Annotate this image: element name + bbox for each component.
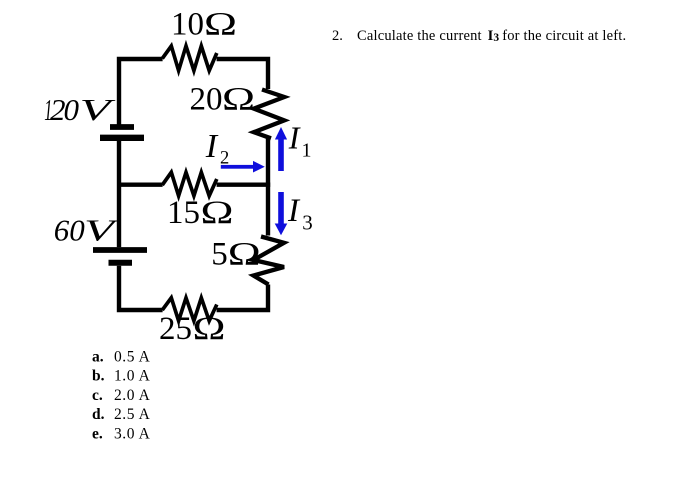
svg-text:60: 60 bbox=[54, 213, 85, 248]
svg-text:I: I bbox=[288, 119, 301, 155]
svg-text:25: 25 bbox=[159, 311, 192, 347]
svg-text:2.: 2. bbox=[332, 28, 343, 44]
svg-text:1.0 A: 1.0 A bbox=[114, 368, 151, 385]
svg-text:20: 20 bbox=[190, 82, 223, 118]
svg-text:Ω: Ω bbox=[201, 195, 234, 231]
wire: right vertical through middle junction (20Ω down to 5Ω) bbox=[266, 138, 270, 236]
wire: middle-left (left branch to 15Ω) bbox=[117, 182, 163, 186]
svg-text:Ω: Ω bbox=[193, 311, 226, 347]
battery B2 60V: long plate (top) bbox=[93, 247, 147, 253]
svg-text:I: I bbox=[287, 193, 301, 229]
battery B1 120V: long plate (bottom) bbox=[100, 135, 144, 141]
current arrow I2 (blue, right) bbox=[221, 161, 265, 173]
resistor R1 10Ω (top) bbox=[162, 46, 217, 71]
svg-text:Calculate the current I3 for t: Calculate the current I3 for the circuit… bbox=[357, 28, 626, 44]
battery B2 60V: short plate (bottom) bbox=[109, 260, 133, 266]
wire: top-left (left battery up to 10Ω resistor) bbox=[119, 59, 163, 125]
svg-text:Ω: Ω bbox=[204, 7, 237, 43]
wire: left vertical between batteries bbox=[117, 141, 121, 248]
svg-text:Ω: Ω bbox=[222, 82, 255, 118]
svg-text:V: V bbox=[80, 92, 116, 127]
svg-text:3: 3 bbox=[302, 211, 313, 235]
svg-text:0.5 A: 0.5 A bbox=[114, 348, 151, 365]
wire: top-right (10Ω to right branch corner) bbox=[217, 59, 268, 89]
battery B1 120V: short plate (top) bbox=[110, 124, 134, 130]
svg-text:1: 1 bbox=[302, 139, 312, 161]
svg-text:3.0 A: 3.0 A bbox=[114, 425, 151, 442]
svg-text:I: I bbox=[205, 128, 219, 165]
svg-text:0: 0 bbox=[64, 92, 80, 127]
svg-text:d.: d. bbox=[92, 406, 105, 423]
resistor R2 20Ω (vertical, right branch) bbox=[254, 90, 284, 139]
svg-text:e.: e. bbox=[92, 425, 103, 442]
resistor R5 25Ω (bottom) bbox=[162, 298, 217, 321]
svg-text:2.5 A: 2.5 A bbox=[114, 406, 151, 423]
wire: bottom-right (25Ω to 5Ω) bbox=[217, 285, 268, 311]
current arrow I1 (blue, up) bbox=[275, 127, 287, 171]
svg-text:b.: b. bbox=[92, 368, 105, 385]
svg-text:2.0 A: 2.0 A bbox=[114, 387, 151, 404]
svg-text:V: V bbox=[84, 213, 119, 248]
svg-text:a.: a. bbox=[92, 348, 104, 365]
wire: middle-right (15Ω to junction node) bbox=[217, 182, 271, 186]
svg-text:10: 10 bbox=[171, 7, 204, 43]
resistor R3 15Ω (middle) bbox=[162, 172, 217, 196]
wire: bottom-left (60V battery down and across to 25Ω) bbox=[119, 266, 163, 310]
current arrow I3 (blue, down) bbox=[275, 192, 288, 235]
svg-text:15: 15 bbox=[167, 195, 200, 231]
svg-text:2: 2 bbox=[220, 148, 229, 168]
svg-text:c.: c. bbox=[92, 387, 103, 404]
resistor R4 5Ω (vertical, right branch) bbox=[253, 237, 284, 285]
svg-text:Ω: Ω bbox=[228, 236, 261, 272]
svg-text:5: 5 bbox=[211, 236, 228, 272]
